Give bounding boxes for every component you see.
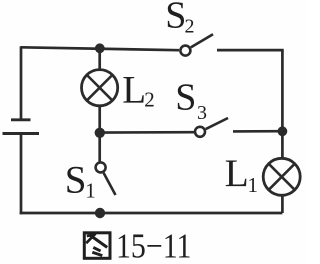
wire right vertical lower (L1 to bottom wire) — [281, 196, 284, 214]
svg-text:2: 2 — [185, 16, 195, 38]
svg-text:S: S — [65, 158, 87, 201]
wire top-right (S2 to right rail) — [217, 49, 284, 52]
wire S3 branch right — [233, 130, 282, 133]
switch S2 lever (open) — [191, 34, 213, 47]
wire bottom — [20, 212, 283, 215]
svg-text:L: L — [122, 69, 146, 112]
switch S3 pivot — [195, 127, 205, 137]
svg-text:15−11: 15−11 — [116, 226, 192, 264]
battery long plate (positive) — [3, 132, 40, 135]
wire top (battery + to S2) — [21, 47, 179, 50]
wire L2 branch lower (L2 to S1) — [98, 107, 101, 162]
wire right vertical upper (to L1) — [281, 50, 284, 158]
wire S3 branch left — [100, 131, 194, 134]
node junction top (L2 branch tap) — [95, 43, 105, 53]
wire left vertical upper (to battery plate) — [20, 46, 23, 118]
caption character 图 (drawn) — [84, 233, 110, 258]
switch S1 pivot — [96, 162, 106, 172]
node junction right (S3 joins right rail) — [278, 126, 288, 136]
svg-text:L: L — [225, 151, 249, 195]
svg-text:2: 2 — [144, 88, 155, 112]
lamp L2 — [82, 70, 118, 106]
svg-text:1: 1 — [85, 179, 96, 203]
wire L2 branch upper — [98, 48, 101, 69]
svg-text:S: S — [165, 0, 186, 36]
battery short plate (negative) — [11, 118, 31, 121]
svg-text:S: S — [175, 77, 196, 119]
switch S3 lever (open) — [206, 118, 228, 129]
svg-text:3: 3 — [197, 102, 207, 124]
lamp L1 — [263, 158, 300, 195]
wire left vertical lower (battery to bottom wire) — [20, 134, 23, 215]
switch S1 lever (open) — [104, 173, 116, 195]
svg-text:1: 1 — [248, 173, 259, 197]
node junction middle (S3 branch tap) — [95, 128, 105, 138]
switch S2 pivot — [180, 46, 190, 56]
node junction bottom (S1 lower contact) — [95, 208, 105, 218]
